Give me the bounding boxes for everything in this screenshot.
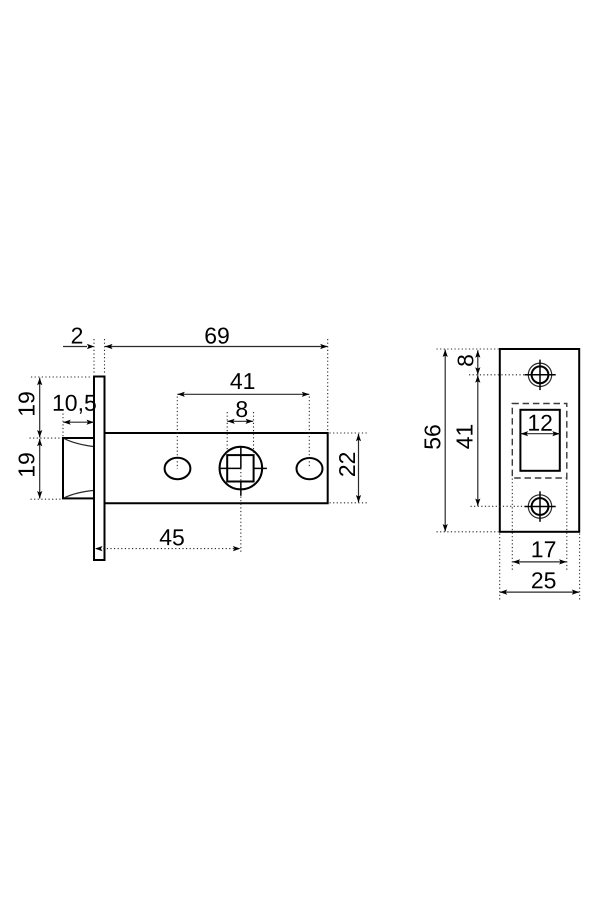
extension lines for dimension 2 [94, 339, 105, 374]
svg-text:10,5: 10,5 [52, 390, 97, 416]
extension lines (front view, bottom) [500, 479, 580, 601]
dimension 17 (strike box width) [513, 536, 567, 564]
spindle circle [220, 447, 263, 490]
extension lines for dimension 41 [177, 397, 309, 470]
svg-text:19: 19 [14, 452, 40, 478]
svg-text:69: 69 [204, 322, 230, 348]
faceplate (side view) [94, 377, 105, 561]
svg-text:56: 56 [419, 424, 445, 450]
dimension 56 (plate height) [419, 350, 448, 532]
svg-text:8: 8 [452, 354, 478, 367]
extension line for dimension 69 [327, 339, 329, 431]
right round hole [297, 458, 323, 479]
svg-text:22: 22 [334, 452, 360, 478]
dimension 8 (square hole width) [227, 396, 253, 424]
dimension 10,5 (bolt projection) [52, 390, 97, 425]
strike plate top screw hole [524, 360, 555, 391]
latch body (side view) [105, 433, 328, 503]
spindle square hole [227, 455, 253, 481]
latch bolt (bevelled tongue) [63, 438, 95, 498]
spindle centreline extension [240, 497, 242, 554]
svg-text:12: 12 [527, 410, 553, 436]
dimension 69 (body length) [105, 322, 328, 349]
svg-text:41: 41 [230, 368, 256, 394]
svg-text:25: 25 [531, 567, 557, 593]
strike plate (front view) [500, 349, 579, 532]
extension lines for 19 dimensions [30, 377, 92, 499]
strike plate bottom screw hole [524, 491, 555, 522]
spindle crosshair [220, 447, 267, 496]
svg-text:8: 8 [235, 396, 248, 422]
extension lines for dimension 22 [330, 433, 368, 503]
dimension 19 lower (bolt height) [14, 439, 43, 499]
dimension 45 (spindle centre distance) [95, 524, 240, 551]
dimension 19 upper (faceplate top to bolt) [14, 378, 43, 438]
svg-text:45: 45 [159, 524, 185, 550]
dimension 22 (body height) [334, 434, 361, 503]
strike cutout rectangle [520, 410, 559, 471]
svg-text:19: 19 [14, 391, 40, 417]
dimension 25 (plate width) [500, 567, 580, 594]
dimension 12 (cutout width) [521, 410, 560, 437]
dimension 2 (faceplate thickness) [63, 322, 94, 349]
extension line for dimension 10,5 [62, 414, 64, 438]
svg-text:17: 17 [531, 536, 557, 562]
dimension 41 (hole spacing) [177, 368, 309, 397]
svg-text:2: 2 [71, 322, 84, 348]
extension lines (front view, left side) [437, 349, 525, 532]
svg-text:41: 41 [452, 424, 478, 450]
strike box dashed outline [512, 404, 567, 479]
dimension 8 (plate top to hole centre) [452, 350, 480, 375]
left oval hole [165, 458, 191, 479]
extension lines for dimension 8 [227, 412, 253, 455]
dimension 41 (screw hole spacing, front view) [452, 375, 481, 506]
